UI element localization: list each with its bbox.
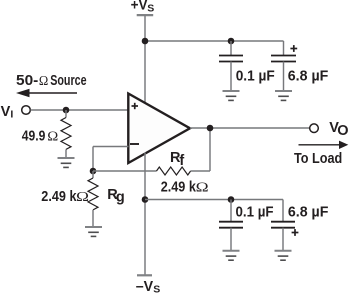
capacitor C2 6.8uF (top bulk): [271, 41, 296, 91]
svg-text:0.1 µF: 0.1 µF: [236, 68, 275, 84]
node junction input / 49.9 ohm: [63, 107, 70, 114]
resistor Rg 2.49k: [88, 171, 98, 227]
ground (under C4): [275, 251, 292, 260]
ground (under R1): [58, 158, 75, 167]
wire feedback to Rf: [93, 170, 157, 172]
resistor Rf 2.49k: [157, 167, 211, 175]
node feedback junction: [90, 168, 97, 175]
value label 2.49 kOhm (Rf): [161, 179, 209, 195]
node junction -VS rail: [142, 196, 149, 203]
wire bottom supply rail: [145, 199, 283, 201]
svg-text:S: S: [147, 3, 154, 15]
value label 2.49 kOhm (Rg): [41, 189, 89, 205]
op-amp U1: [128, 94, 190, 164]
svg-text:I: I: [10, 109, 13, 121]
arrow source direction (points left): [16, 89, 77, 97]
wire feedback vertical to output: [209, 128, 211, 171]
label 50-Ohm Source: [16, 73, 87, 89]
svg-text:V: V: [1, 104, 11, 120]
ground (under C2): [275, 91, 292, 100]
ground (under C3): [223, 251, 240, 260]
node output junction: [207, 125, 214, 132]
ground (under Rg): [85, 227, 102, 236]
capacitor C1 0.1uF (top bypass): [219, 41, 243, 91]
arrow to load (points right): [299, 141, 349, 149]
label Rg: [107, 187, 125, 206]
svg-text:S: S: [153, 284, 160, 293]
svg-text:–V: –V: [136, 279, 154, 293]
svg-text:6.8 µF: 6.8 µF: [288, 68, 329, 84]
svg-text:Source: Source: [50, 73, 86, 89]
svg-text:To Load: To Load: [294, 151, 342, 167]
svg-text:Ω: Ω: [47, 130, 58, 145]
label Rf: [170, 150, 184, 169]
resistor R1 49.9 Ohm: [61, 110, 71, 158]
wire -VS vertical lead: [144, 153, 146, 276]
node junction top rail to 0.1uF: [228, 38, 235, 45]
svg-text:Ω: Ω: [76, 190, 89, 205]
svg-text:0.1 µF: 0.1 µF: [236, 204, 274, 220]
capacitor C3 0.1uF (bottom bypass): [219, 200, 243, 251]
wire noninverting input: [31, 109, 129, 111]
svg-text:2.49 k: 2.49 k: [41, 189, 77, 205]
svg-text:6.8 µF: 6.8 µF: [288, 204, 329, 220]
svg-text:f: f: [179, 153, 184, 169]
svg-text:50-: 50-: [16, 73, 38, 89]
wire inverting input horizontal: [93, 146, 129, 148]
wire +VS vertical lead: [144, 16, 146, 105]
power terminal +VS: [131, 0, 155, 15]
ground (under C1): [223, 91, 240, 100]
terminal VI: [1, 104, 31, 121]
svg-text:Ω: Ω: [39, 74, 48, 89]
wire inverting input down: [92, 147, 94, 172]
svg-text:g: g: [116, 190, 125, 206]
svg-text:O: O: [337, 123, 348, 139]
wire output: [190, 127, 310, 129]
svg-text:Ω: Ω: [196, 180, 209, 195]
value label 49.9 Ohm: [22, 129, 59, 145]
node junction bottom rail to 0.1uF: [228, 196, 235, 203]
terminal VO: [310, 120, 349, 139]
node junction +VS rail: [142, 38, 149, 45]
label + polarity C4: [292, 229, 299, 236]
svg-text:+V: +V: [131, 0, 148, 14]
label + polarity C2: [290, 45, 297, 52]
power terminal -VS: [136, 275, 161, 293]
svg-text:2.49 k: 2.49 k: [161, 179, 197, 195]
svg-text:49.9: 49.9: [22, 129, 46, 145]
wire top supply rail: [145, 40, 284, 42]
capacitor C4 6.8uF (bottom bulk): [271, 200, 295, 251]
